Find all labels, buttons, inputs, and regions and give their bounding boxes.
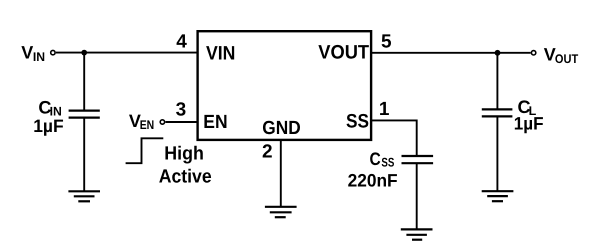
label CIN [38, 97, 61, 118]
svg-text:High: High [164, 143, 204, 164]
ground (CSS) [401, 229, 433, 239]
svg-text:220nF: 220nF [348, 171, 398, 191]
terminal VIN [51, 50, 55, 54]
label VIN terminal [21, 43, 45, 65]
wire EN pin3 [166, 121, 198, 123]
svg-text:2: 2 [262, 141, 273, 162]
svg-text:SS: SS [381, 156, 394, 170]
label CL [518, 97, 537, 118]
svg-text:IN: IN [33, 50, 45, 64]
wire CSS to ground [416, 164, 418, 230]
wire CIN to ground [83, 118, 85, 191]
wire VOUT pin5 [371, 52, 530, 54]
svg-text:V: V [21, 43, 33, 63]
label VOUT terminal [544, 45, 579, 67]
svg-text:5: 5 [381, 32, 392, 53]
wire CL branch [496, 53, 498, 109]
node junction at VIN [81, 50, 87, 56]
ground (IC GND) [265, 207, 297, 217]
svg-text:3: 3 [176, 100, 187, 121]
svg-text:EN: EN [203, 112, 227, 133]
IC U1 body [198, 31, 372, 140]
svg-text:4: 4 [176, 31, 187, 52]
capacitor CL [482, 109, 513, 116]
wire VIN pin4 [56, 52, 198, 54]
svg-text:Active: Active [159, 166, 212, 187]
ground (CL) [482, 191, 514, 201]
capacitor CSS [402, 156, 434, 163]
wire CL to ground [496, 117, 498, 191]
svg-text:1µF: 1µF [33, 116, 64, 136]
svg-text:VIN: VIN [206, 43, 235, 65]
label VEN terminal [129, 111, 154, 132]
svg-text:OUT: OUT [555, 52, 579, 66]
svg-text:SS: SS [346, 111, 369, 133]
wire CIN branch [83, 53, 85, 110]
svg-text:C: C [370, 149, 381, 169]
label CSS [370, 149, 395, 170]
wire GND pin2 [280, 140, 282, 207]
svg-text:GND: GND [262, 118, 300, 139]
svg-text:EN: EN [140, 118, 155, 132]
ground (CIN) [68, 191, 100, 201]
terminal VEN [160, 120, 164, 124]
svg-text:VOUT: VOUT [318, 42, 369, 64]
capacitor CIN [69, 111, 100, 118]
step waveform symbol [126, 138, 164, 163]
svg-text:1: 1 [379, 99, 390, 120]
node junction at VOUT [495, 50, 501, 56]
svg-text:1µF: 1µF [514, 113, 544, 133]
terminal VOUT [531, 51, 535, 55]
wire SS pin1 [371, 120, 417, 155]
